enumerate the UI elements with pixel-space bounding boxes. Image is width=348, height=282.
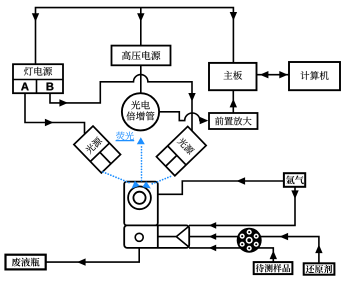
preamplifier box <box>209 113 258 129</box>
channel label A <box>21 83 29 91</box>
atomizer flame circles <box>128 186 151 209</box>
blue excitation beam from left lamp <box>103 172 131 183</box>
peristaltic pump <box>237 228 262 253</box>
reductant box <box>304 263 335 274</box>
computer box <box>289 62 340 90</box>
arrow into mainboard <box>230 12 237 21</box>
lamp power supply box <box>13 64 63 93</box>
wire lamp-psu A to left lamp <box>25 94 85 134</box>
drain circle in separator <box>135 233 143 241</box>
arrow into HV power supply <box>137 13 144 22</box>
wire preamp up to mainboard <box>232 91 234 114</box>
top control bus from mainboard to power supplies <box>36 8 234 64</box>
high voltage power supply box <box>112 46 171 66</box>
photomultiplier tube <box>122 93 159 130</box>
waste bottle box <box>6 255 46 270</box>
wire argon supply to atomizer <box>158 181 284 194</box>
wire PMT output to preamp (hop over lamp wire) <box>158 112 207 121</box>
wire argon down to gas-liquid separator top line <box>189 187 295 225</box>
drain wire to waste bottle <box>46 240 139 262</box>
arrow into lamp power supply <box>32 13 39 22</box>
tube reductant line to pump <box>189 237 319 263</box>
right hollow-cathode lamp <box>156 126 206 175</box>
sample box <box>254 262 293 274</box>
arrows into gas-liquid separator <box>209 222 216 229</box>
argon gas box <box>284 173 305 187</box>
wire lamp-psu B to right lamp (hop over HV line) <box>50 75 192 132</box>
label lamp power <box>24 67 52 76</box>
gas-liquid separator (lower box) <box>124 225 189 248</box>
tube sample line to pump <box>189 248 273 262</box>
wire HV supply down to PMT <box>140 65 142 94</box>
bidirectional wire mainboard - computer <box>257 74 290 76</box>
blue excitation beam from right lamp <box>151 177 171 185</box>
mainboard box <box>209 63 257 90</box>
mixer cone in separator <box>158 226 189 247</box>
label fluorescence <box>116 132 134 140</box>
left hollow-cathode lamp <box>74 126 121 173</box>
blue fluorescence beam up to PMT <box>141 144 143 180</box>
atomizer housing (upper box) <box>124 182 158 226</box>
channel label B <box>47 83 54 91</box>
